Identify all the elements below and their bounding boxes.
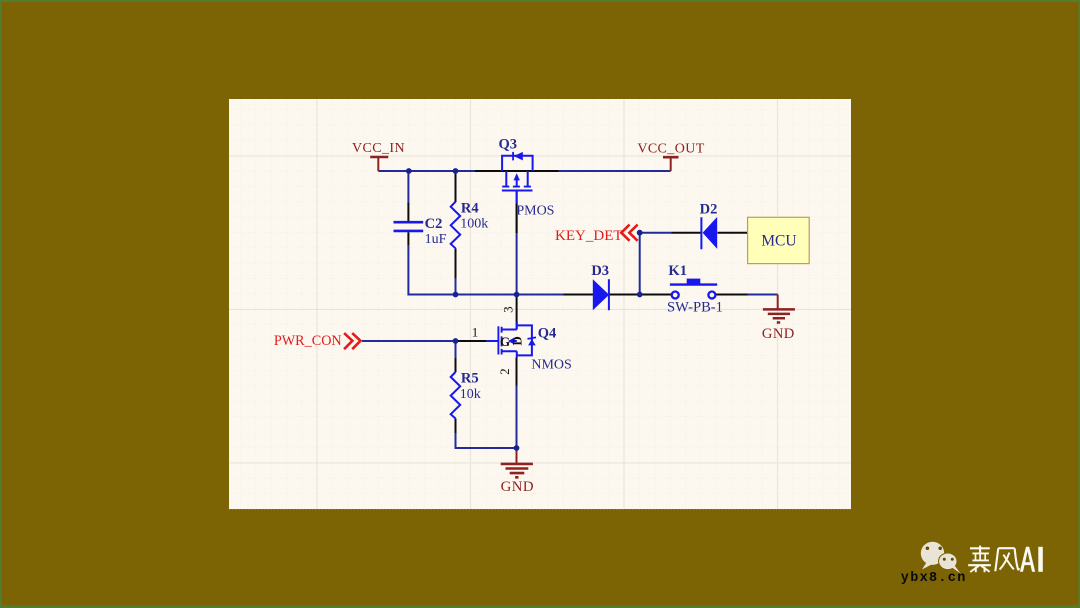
svg-text:VCC_OUT: VCC_OUT	[637, 142, 704, 157]
svg-text:3: 3	[500, 306, 515, 313]
svg-text:K1: K1	[668, 263, 687, 279]
svg-text:GND: GND	[501, 479, 534, 495]
svg-text:Q4: Q4	[538, 326, 557, 342]
svg-text:1: 1	[472, 325, 479, 340]
svg-text:R4: R4	[461, 201, 479, 217]
svg-text:GND: GND	[762, 326, 795, 342]
svg-text:KEY_DET: KEY_DET	[555, 228, 623, 244]
svg-text:10k: 10k	[460, 387, 481, 402]
svg-text:PMOS: PMOS	[516, 204, 554, 219]
svg-text:Q3: Q3	[499, 137, 518, 153]
svg-text:D: D	[509, 336, 524, 345]
svg-text:MCU: MCU	[761, 232, 796, 249]
svg-text:D2: D2	[700, 201, 718, 217]
svg-text:D3: D3	[591, 263, 609, 279]
svg-text:100k: 100k	[460, 217, 488, 232]
svg-text:PWR_CON: PWR_CON	[274, 333, 342, 349]
svg-text:2: 2	[497, 368, 512, 375]
svg-text:VCC_IN: VCC_IN	[352, 141, 405, 156]
svg-text:C2: C2	[425, 216, 443, 232]
svg-text:ybx8.cn: ybx8.cn	[901, 571, 967, 586]
svg-text:R5: R5	[461, 370, 479, 386]
svg-text:SW-PB-1: SW-PB-1	[667, 300, 723, 316]
svg-text:NMOS: NMOS	[531, 358, 571, 373]
svg-text:1uF: 1uF	[425, 232, 447, 247]
